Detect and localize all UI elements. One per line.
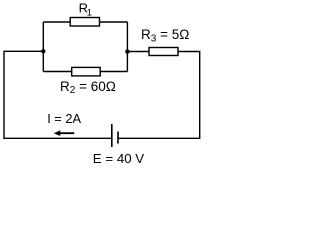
svg-text:R1: R1 [79,1,92,19]
svg-text:I = 2A: I = 2A [47,111,81,126]
svg-text:E = 40 V: E = 40 V [93,151,145,166]
svg-text:R3 = 5Ω: R3 = 5Ω [141,27,189,44]
svg-text:R2 = 60Ω: R2 = 60Ω [60,79,116,96]
